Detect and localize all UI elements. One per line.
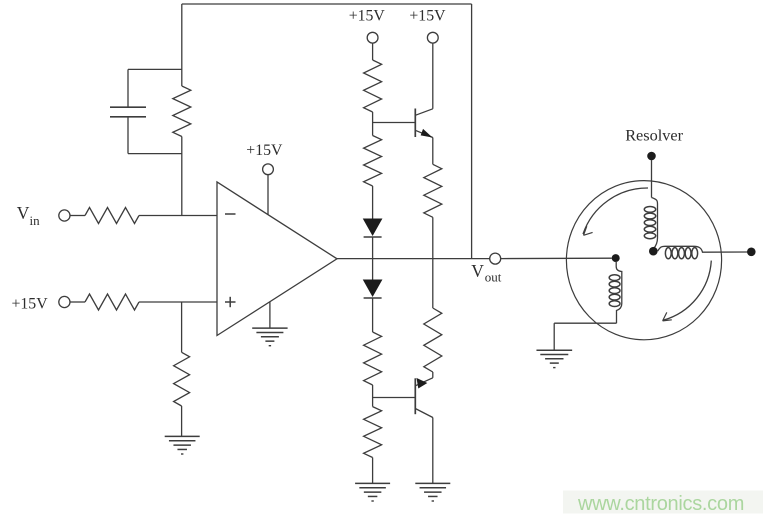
- svg-text:Resolver: Resolver: [625, 125, 683, 144]
- svg-text:+15V: +15V: [349, 8, 386, 25]
- svg-text:+15V: +15V: [409, 8, 446, 25]
- svg-text:in: in: [30, 213, 41, 228]
- svg-text:out: out: [485, 270, 502, 285]
- svg-text:+15V: +15V: [246, 142, 283, 159]
- svg-text:+15V: +15V: [12, 296, 49, 313]
- svg-text:www.cntronics.com: www.cntronics.com: [577, 493, 744, 515]
- svg-text:V: V: [17, 203, 30, 223]
- svg-text:V: V: [471, 261, 484, 281]
